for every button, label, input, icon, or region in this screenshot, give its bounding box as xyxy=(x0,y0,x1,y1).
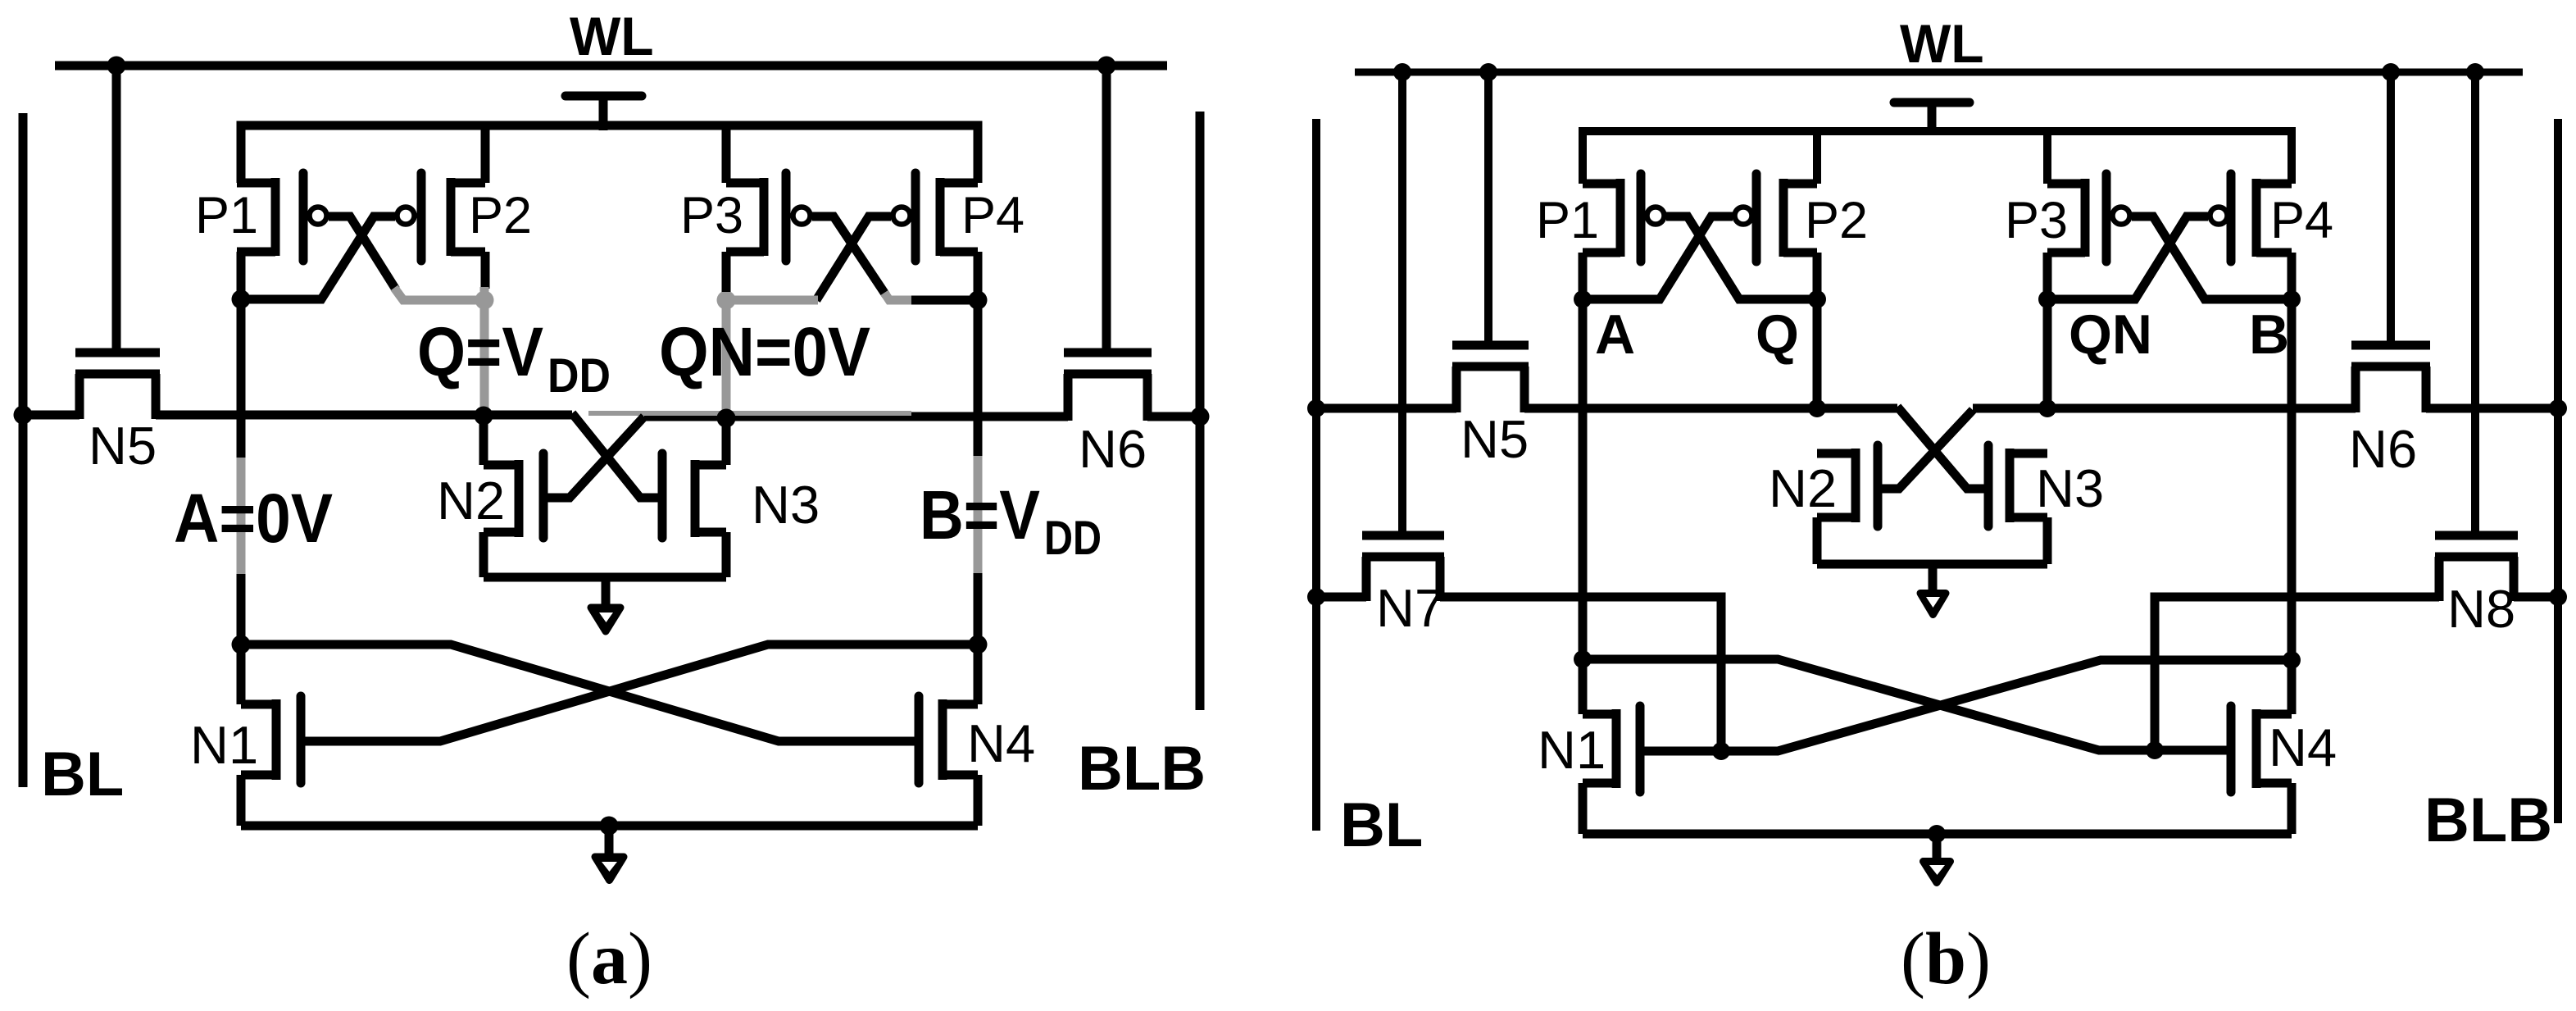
node: junction node B lower (b) xyxy=(2283,651,2301,669)
wire: P2 drain gray tail (a) xyxy=(480,287,489,300)
transistor N1 (a) xyxy=(241,696,301,783)
svg-text:WL: WL xyxy=(1900,13,1984,74)
wire: P1 drain drop (b) xyxy=(1579,253,1588,299)
wire: N3 source drop (b) xyxy=(2043,517,2052,564)
node: junction node Q upper (b) xyxy=(1808,290,1826,308)
svg-text:BL: BL xyxy=(41,740,124,809)
transistor N3 (a) xyxy=(662,453,726,538)
label B=VDD (a) xyxy=(920,476,1102,565)
transistor N5 access (b) xyxy=(1452,72,1529,412)
label BLB (a) xyxy=(1078,734,1206,804)
wire: word line WL (circuit a) xyxy=(55,61,1167,71)
wire: P3 drain drop (b) xyxy=(2043,253,2052,299)
node: junction WL / N8 gate (b) xyxy=(2466,63,2484,81)
svg-text:P4: P4 xyxy=(2270,192,2333,249)
node: junction node B lower (a) xyxy=(969,635,988,654)
transistor P4 (b) xyxy=(2210,174,2292,262)
label N3 (b) xyxy=(2036,458,2104,518)
node: row junction Q (a) xyxy=(475,407,493,426)
wire: access row1 QN side to N6 (b) xyxy=(1973,404,2356,413)
node: row2 junction at BL (b) xyxy=(1307,588,1325,606)
wire: P2 source drop (b) xyxy=(1813,131,1821,184)
svg-text:N8: N8 xyxy=(2447,579,2515,639)
svg-text:P2: P2 xyxy=(1805,192,1868,249)
label WL (b) xyxy=(1900,13,1984,74)
node: QN upper junction gray dot (a) xyxy=(717,291,736,310)
label P4 (b) xyxy=(2270,192,2333,249)
transistor N4 (a) xyxy=(919,696,978,783)
node: junction WL / N6 gate (b) xyxy=(2382,63,2400,81)
label QN=0V (a) xyxy=(659,313,870,390)
transistor P3 (b) xyxy=(2047,174,2130,262)
node: junction N1 gate (b) xyxy=(1712,742,1730,760)
transistor N2 (a) xyxy=(484,453,543,538)
wire: access row2 N7 to N1 gate drop (b) xyxy=(1440,597,1721,751)
transistor N2 (b) xyxy=(1817,445,1878,526)
svg-text:P4: P4 xyxy=(961,187,1024,244)
wire: word line WL (circuit b) xyxy=(1355,69,2523,76)
svg-text:P2: P2 xyxy=(469,187,532,244)
svg-text:N5: N5 xyxy=(1461,409,1529,469)
wire: node QN column (b) xyxy=(2043,299,2052,408)
svg-text:BLB: BLB xyxy=(1078,734,1206,804)
svg-text:QN=0V: QN=0V xyxy=(659,313,870,390)
svg-text:Q: Q xyxy=(1756,303,1799,366)
svg-text:N3: N3 xyxy=(752,475,820,535)
label N3 (a) xyxy=(752,475,820,535)
transistor P1 (b) xyxy=(1583,174,1665,262)
svg-text:N5: N5 xyxy=(89,416,157,476)
wire: access row1 N6 to BLB (b) xyxy=(2426,404,2558,413)
label node B (b) xyxy=(2249,303,2289,366)
wire: N1 source to rail (b) xyxy=(1579,783,1588,834)
node: row1 junction Q (b) xyxy=(1808,399,1826,417)
label BL (b) xyxy=(1340,790,1423,860)
label N1 (b) xyxy=(1538,720,1606,780)
wire: access row2 N4 gate drop to N8 (b) xyxy=(2155,597,2439,751)
label node A (b) xyxy=(1595,303,1635,366)
ground: bottom ground symbol (a) xyxy=(595,826,624,881)
label N8 (b) xyxy=(2447,579,2515,639)
wire: node Q gray drop to row (a) xyxy=(480,300,489,412)
svg-text:QN: QN xyxy=(2069,303,2152,366)
transistor P4 (a) xyxy=(893,173,979,261)
wire: P1 gate to node Q (b) xyxy=(1666,216,1817,299)
wire: node B to N1 gate cross (b) xyxy=(1640,660,2292,751)
svg-text:N3: N3 xyxy=(2036,458,2104,518)
transistor N8 access (b) xyxy=(2435,72,2518,601)
svg-text:DD: DD xyxy=(547,349,611,403)
label A=0V (a) xyxy=(174,480,333,557)
label node QN (b) xyxy=(2069,303,2152,366)
wire: bit line BLB (a) xyxy=(1196,112,1205,710)
wire: P3 source drop (a) xyxy=(722,125,731,183)
svg-text:A=0V: A=0V xyxy=(174,480,333,557)
wire: node A column lower black (a) xyxy=(237,574,246,704)
node: ground junction (a) xyxy=(600,817,619,836)
wire: N2-N3 shared source bar (b) xyxy=(1817,560,2047,569)
label P4 (a) xyxy=(961,187,1024,244)
wire: P2 gate to node A (a) xyxy=(241,216,395,299)
label N2 (a) xyxy=(437,471,505,531)
wire: N3 gate to Q diagonal (a) xyxy=(572,413,662,498)
svg-text:N2: N2 xyxy=(1769,458,1837,518)
svg-text:N6: N6 xyxy=(1079,419,1147,479)
wire: P4 drain drop (b) xyxy=(2288,253,2297,299)
wire: N3 source drop (a) xyxy=(722,532,731,577)
wire: node QN gray drop to row (a) xyxy=(722,300,731,412)
svg-text:BLB: BLB xyxy=(2424,786,2552,855)
label N2 (b) xyxy=(1769,458,1837,518)
wire: bit line BL (b) xyxy=(1312,119,1320,831)
node: junction node B upper (b) xyxy=(2283,290,2301,308)
wire: P4 gate to node QN gray part (a) xyxy=(726,296,818,305)
transistor P1 (a) xyxy=(237,173,327,261)
svg-text:B: B xyxy=(2249,303,2289,366)
wire: N3 drain drop from QN (a) xyxy=(722,415,731,465)
label P1 (b) xyxy=(1536,192,1599,249)
transistor N7 access (b) xyxy=(1362,72,1444,601)
wire: node B column (b) xyxy=(2288,299,2297,714)
power: VDD supply symbol (a) xyxy=(566,96,642,130)
wire: N2 gate to QN diagonal (b) xyxy=(1878,410,1973,489)
label N6 (b) xyxy=(2349,419,2417,479)
label N4 (b) xyxy=(2269,717,2337,777)
label N1 (a) xyxy=(190,715,258,775)
label P3 (a) xyxy=(680,187,743,244)
wire: node B column upper black (a) xyxy=(974,252,983,456)
svg-text:N4: N4 xyxy=(967,713,1035,773)
node: row junction at BL (a) xyxy=(14,406,33,425)
svg-text:N2: N2 xyxy=(437,471,505,531)
label N7 (b) xyxy=(1376,578,1444,638)
svg-text:N1: N1 xyxy=(1538,720,1606,780)
node: row junction QN (a) xyxy=(717,409,736,428)
svg-text:A: A xyxy=(1595,303,1635,366)
node: row1 junction at BL (b) xyxy=(1307,399,1325,417)
node: row1 junction QN (b) xyxy=(2038,399,2056,417)
wire: P2 drain drop (b) xyxy=(1813,253,1822,299)
caption (a) xyxy=(566,918,652,1000)
wire: access row2 N8 to BLB (b) xyxy=(2514,593,2558,602)
label N4 (a) xyxy=(967,713,1035,773)
wire: P4 gate to node QN (b) xyxy=(2047,216,2208,299)
node: junction WL / N5 gate (a) xyxy=(107,57,126,75)
wire: P1 gate to node Q gray part (a) xyxy=(394,288,484,300)
label WL (a) xyxy=(570,6,654,66)
svg-text:P1: P1 xyxy=(1536,192,1599,249)
wire: cell access row BL-side (a) xyxy=(23,411,80,420)
label N6 (a) xyxy=(1079,419,1147,479)
node: junction WL / N7 gate (b) xyxy=(1393,63,1411,81)
wire: cell access row N5 to Q bend (a) xyxy=(156,411,572,420)
label P2 (a) xyxy=(469,187,532,244)
wire: cell access row QN to N6 (a) xyxy=(644,412,1068,421)
transistor N6 access (b) xyxy=(2351,72,2430,412)
node: Q upper junction gray dot (a) xyxy=(475,291,494,310)
wire: row gray overlay sliver (a) xyxy=(588,411,911,416)
wire: N2 gate to QN diagonal (a) xyxy=(543,417,644,498)
wire: node B to N1 gate cross (a) xyxy=(301,644,978,741)
wire: P3 gate to node B (b) xyxy=(2132,216,2292,299)
node: junction node A upper (a) xyxy=(232,290,251,309)
svg-text:DD: DD xyxy=(1044,512,1102,565)
transistor P2 (b) xyxy=(1735,174,1818,262)
caption (b) xyxy=(1901,918,1991,1000)
transistor N3 (b) xyxy=(1988,445,2047,526)
wire: node A column (b) xyxy=(1579,299,1588,714)
transistor P3 (a) xyxy=(726,173,811,261)
svg-text:N7: N7 xyxy=(1376,578,1444,638)
wire: bottom ground rail (b) xyxy=(1583,830,2292,839)
node: junction WL / N5 gate (b) xyxy=(1479,63,1497,81)
node: row1 junction at BLB (b) xyxy=(2549,399,2567,417)
wire: P2 source drop (a) xyxy=(481,125,490,183)
wire: N2 source drop (b) xyxy=(1813,517,1822,564)
wire: P2 gate to node A (b) xyxy=(1583,216,1733,299)
svg-text:BL: BL xyxy=(1340,790,1423,860)
wire: bit line BLB (b) xyxy=(2554,119,2562,823)
node: junction node A lower (b) xyxy=(1574,650,1592,668)
wire: cell access row N6 to BLB (a) xyxy=(1147,412,1200,421)
wire: access row2 BL to N7 (b) xyxy=(1316,593,1366,602)
node: row junction at BLB (a) xyxy=(1191,408,1210,426)
wire: P3 source drop (b) xyxy=(2043,131,2051,184)
svg-text:B=V: B=V xyxy=(920,476,1040,553)
label BL (a) xyxy=(41,740,124,809)
label N5 (b) xyxy=(1461,409,1529,469)
transistor N6 access (a) xyxy=(1064,66,1152,421)
wire: P3 gate to node B gray piece (a) xyxy=(884,293,911,300)
transistor P2 (a) xyxy=(398,173,486,261)
wire: bit line BL (a) xyxy=(19,113,28,787)
wire: node A to N4 gate cross (b) xyxy=(1583,659,2231,750)
svg-text:P1: P1 xyxy=(195,187,258,244)
label P2 (b) xyxy=(1805,192,1868,249)
wire: N2 source drop (a) xyxy=(479,532,488,577)
ground: latch ground symbol (b) xyxy=(1920,564,1946,615)
wire: P3 gate to node B end (a) xyxy=(911,296,978,305)
svg-text:N4: N4 xyxy=(2269,717,2337,777)
wire: access row1 N5 to Q bend (b) xyxy=(1524,404,1897,413)
node: junction N4 gate (b) xyxy=(2146,741,2164,759)
node: row2 junction at BLB (b) xyxy=(2549,588,2567,606)
wire: P3 drain (a) xyxy=(722,252,731,292)
node: junction WL / N6 gate (a) xyxy=(1097,57,1116,75)
svg-text:N6: N6 xyxy=(2349,419,2417,479)
node: junction node A upper (b) xyxy=(1574,290,1592,308)
label Q=VDD (a) xyxy=(417,313,611,403)
wire: P4 gate black part (a) xyxy=(816,216,891,300)
wire: P3 gate to node B black (a) xyxy=(812,216,886,295)
wire: N2-N3 shared source bar (a) xyxy=(484,573,726,582)
label BLB (b) xyxy=(2424,786,2552,855)
label node Q (b) xyxy=(1756,303,1799,366)
wire: N2 drain drop from Q (a) xyxy=(479,415,488,465)
wire: N4 source to rail (a) xyxy=(974,775,983,826)
label P3 (b) xyxy=(2005,192,2068,249)
wire: node A to N4 gate cross (a) xyxy=(241,644,919,741)
node: junction node A lower (a) xyxy=(232,635,251,654)
svg-text:(a): (a) xyxy=(566,918,652,1000)
wire: P2 drain black (a) xyxy=(481,252,490,289)
wire: node A column upper black (a) xyxy=(237,252,246,458)
label N5 (a) xyxy=(89,416,157,476)
wire: VDD rail (a) xyxy=(241,125,978,183)
label P1 (a) xyxy=(195,187,258,244)
wire: N1 source to rail (a) xyxy=(237,775,246,826)
svg-text:P3: P3 xyxy=(2005,192,2068,249)
svg-text:P3: P3 xyxy=(680,187,743,244)
transistor N5 access (a) xyxy=(75,66,160,419)
wire: bottom ground rail (a) xyxy=(241,822,978,831)
wire: node A column gray (a) xyxy=(237,458,246,574)
svg-text:N1: N1 xyxy=(190,715,258,775)
power: VDD supply symbol (b) xyxy=(1894,102,1969,135)
node: junction node B upper (a) xyxy=(969,291,988,310)
wire: VDD rail (b) xyxy=(1583,131,2292,184)
wire: N4 source to rail (b) xyxy=(2288,783,2297,834)
svg-text:(b): (b) xyxy=(1901,918,1991,1000)
wire: node B column lower black (a) xyxy=(974,573,983,704)
wire: node B column gray (a) xyxy=(974,456,983,573)
svg-text:WL: WL xyxy=(570,6,654,66)
wire: node Q column (b) xyxy=(1813,299,1822,408)
node: ground junction (b) xyxy=(1928,825,1946,843)
node: junction node QN upper (b) xyxy=(2038,290,2056,308)
wire: N3 gate to Q diagonal (b) xyxy=(1897,407,1988,489)
wire: access row1 BL to N5 (b) xyxy=(1316,404,1456,413)
wire: P1 gate to node Q black part (a) xyxy=(329,216,396,289)
ground: bottom ground symbol (b) xyxy=(1924,834,1951,883)
transistor N4 (b) xyxy=(2231,706,2292,792)
transistor N1 (b) xyxy=(1583,706,1640,792)
ground: latch ground symbol (a) xyxy=(591,577,620,631)
svg-text:Q=V: Q=V xyxy=(417,313,543,390)
